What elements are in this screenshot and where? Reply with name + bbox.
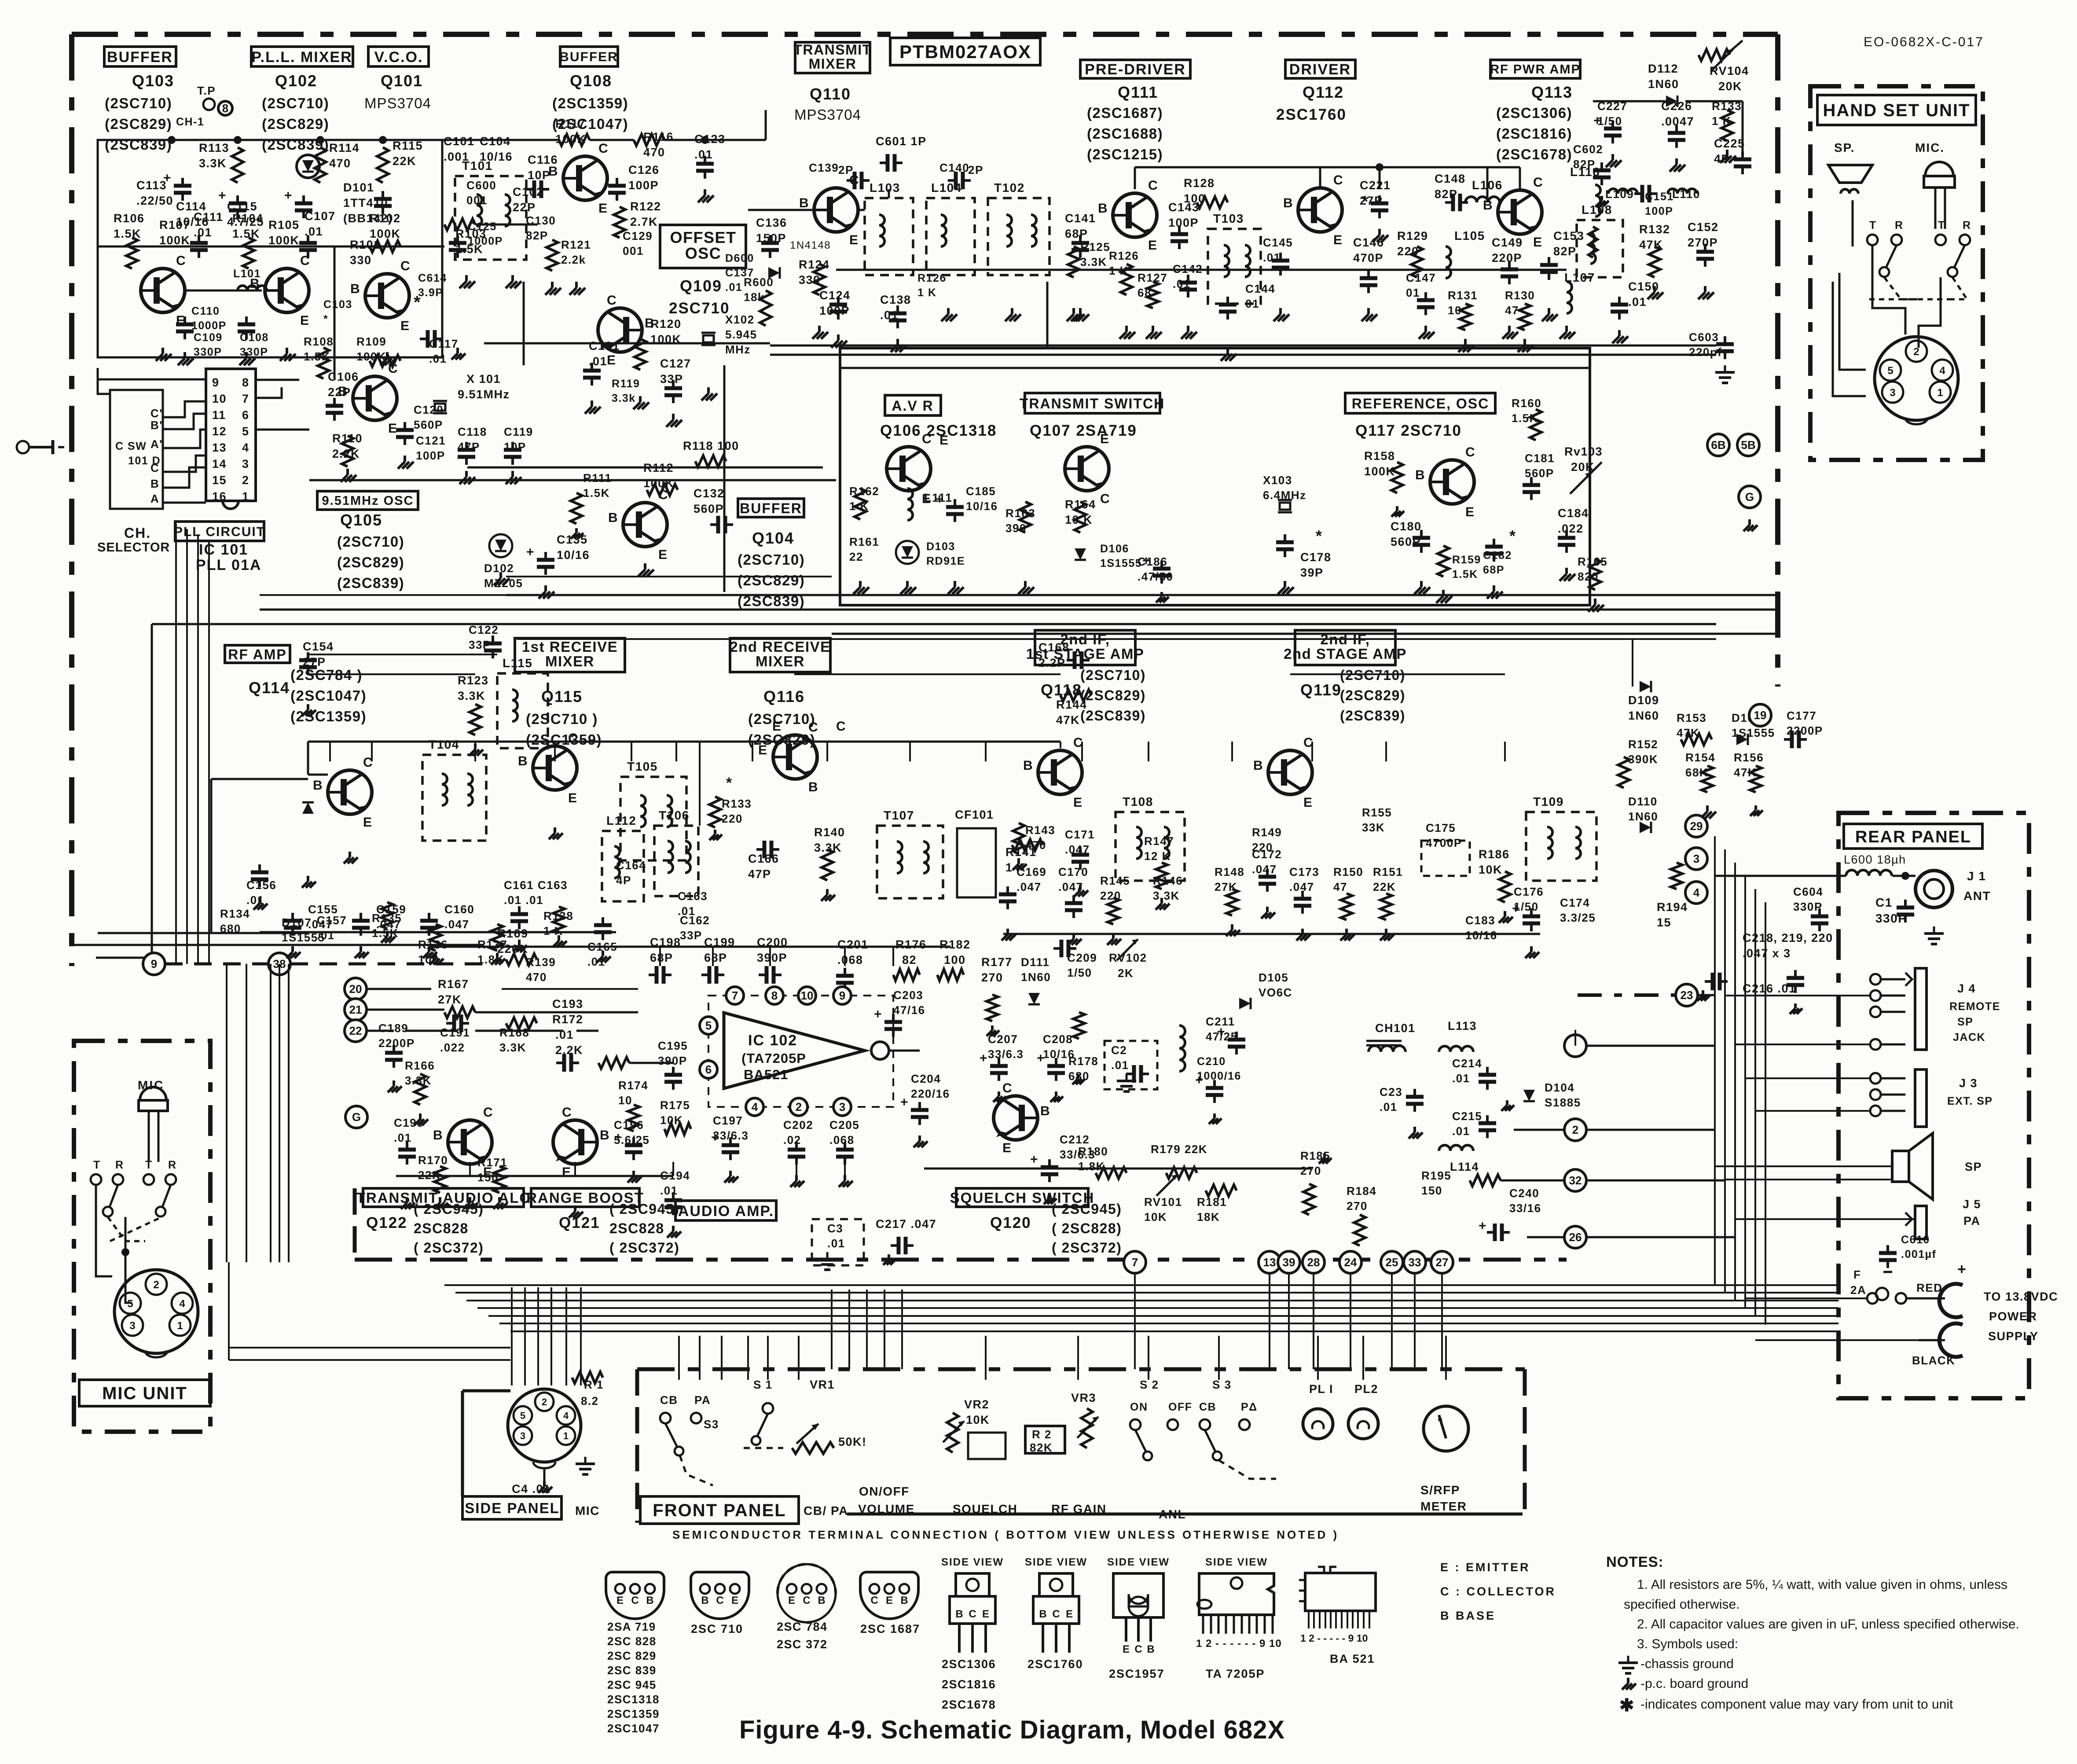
svg-text:D110: D110 bbox=[1628, 795, 1658, 808]
svg-text:10/16: 10/16 bbox=[557, 548, 590, 562]
svg-text:.068: .068 bbox=[829, 1133, 855, 1147]
svg-text:+: + bbox=[614, 1130, 623, 1145]
svg-text:4P: 4P bbox=[1714, 152, 1730, 165]
svg-text:68P: 68P bbox=[704, 951, 727, 964]
svg-text:E: E bbox=[562, 1165, 572, 1180]
svg-text:B: B bbox=[955, 1608, 963, 1620]
svg-text:C196: C196 bbox=[614, 1118, 644, 1132]
svg-text:BUFFER: BUFFER bbox=[107, 49, 173, 66]
svg-text:100: 100 bbox=[944, 953, 966, 967]
svg-text:R181: R181 bbox=[1197, 1195, 1227, 1209]
svg-text:CH101: CH101 bbox=[1375, 1022, 1416, 1035]
svg-text:B: B bbox=[548, 164, 558, 179]
svg-text:T: T bbox=[93, 1159, 101, 1171]
svg-text:C170: C170 bbox=[1058, 865, 1088, 878]
svg-text:+: + bbox=[936, 492, 944, 507]
svg-text:R129: R129 bbox=[1397, 229, 1428, 243]
svg-text:C: C bbox=[568, 731, 578, 746]
svg-text:E: E bbox=[1333, 233, 1343, 247]
svg-text:2: 2 bbox=[153, 1279, 159, 1291]
svg-text:R134: R134 bbox=[220, 907, 250, 920]
svg-text:*: * bbox=[1362, 192, 1369, 210]
svg-text:5: 5 bbox=[127, 1298, 133, 1310]
svg-text:2.2P: 2.2P bbox=[1038, 656, 1066, 669]
svg-text:C: C bbox=[598, 141, 609, 156]
svg-text:23: 23 bbox=[1681, 989, 1693, 1002]
svg-text:(2SC710): (2SC710) bbox=[337, 533, 404, 550]
svg-text:C: C bbox=[300, 254, 310, 268]
svg-text:(2SC710): (2SC710) bbox=[748, 711, 815, 727]
svg-text:.01: .01 bbox=[1628, 295, 1647, 309]
svg-text:C119: C119 bbox=[504, 425, 533, 438]
svg-text:+: + bbox=[900, 1095, 909, 1110]
svg-text:C139: C139 bbox=[809, 161, 839, 174]
svg-text:SP.: SP. bbox=[1834, 141, 1855, 154]
svg-text:1N60: 1N60 bbox=[1021, 970, 1051, 984]
svg-text:.01: .01 bbox=[1452, 1125, 1470, 1138]
svg-text:R148: R148 bbox=[1215, 865, 1244, 878]
svg-text:C195: C195 bbox=[658, 1039, 688, 1052]
svg-text:28: 28 bbox=[1307, 1256, 1320, 1269]
svg-text:2SA 719: 2SA 719 bbox=[607, 1620, 656, 1633]
svg-text:R108: R108 bbox=[304, 335, 334, 348]
svg-text:PL2: PL2 bbox=[1354, 1382, 1378, 1396]
svg-text:C602: C602 bbox=[1573, 143, 1603, 156]
svg-text:CB: CB bbox=[660, 1393, 678, 1407]
svg-text:S 2: S 2 bbox=[1140, 1378, 1159, 1391]
svg-text:C205: C205 bbox=[829, 1118, 859, 1132]
svg-text:SP: SP bbox=[1965, 1160, 1982, 1173]
svg-text:R101: R101 bbox=[350, 238, 381, 251]
svg-text:C126: C126 bbox=[628, 163, 660, 176]
svg-text:(2SC839): (2SC839) bbox=[337, 575, 404, 591]
svg-text:7: 7 bbox=[242, 392, 250, 405]
svg-text:R161: R161 bbox=[849, 535, 879, 548]
svg-text:11: 11 bbox=[212, 408, 226, 422]
svg-text:R120: R120 bbox=[650, 317, 682, 331]
svg-text:MPS3704: MPS3704 bbox=[364, 95, 431, 111]
svg-text:C217 .047: C217 .047 bbox=[876, 1217, 936, 1231]
svg-text:R106: R106 bbox=[114, 212, 145, 225]
svg-text:C127: C127 bbox=[660, 357, 691, 370]
svg-text:2: 2 bbox=[242, 474, 250, 487]
svg-text:*: * bbox=[323, 313, 328, 325]
svg-text:RF PWR AMP: RF PWR AMP bbox=[1490, 62, 1581, 77]
svg-text:2: 2 bbox=[796, 1100, 802, 1114]
svg-text:33K: 33K bbox=[1362, 821, 1385, 834]
svg-text:C113: C113 bbox=[136, 179, 167, 192]
svg-text:F: F bbox=[1853, 1268, 1861, 1281]
svg-text:( 2SC372): ( 2SC372) bbox=[609, 1240, 679, 1256]
svg-text:L115: L115 bbox=[503, 656, 532, 670]
svg-text:2SC828: 2SC828 bbox=[609, 1220, 664, 1236]
svg-text:22P: 22P bbox=[328, 386, 351, 399]
svg-text:270: 270 bbox=[1300, 1164, 1321, 1177]
svg-text:22: 22 bbox=[849, 550, 863, 563]
svg-text:C190: C190 bbox=[394, 1116, 424, 1129]
svg-text:X102: X102 bbox=[725, 313, 755, 326]
svg-text:12 K: 12 K bbox=[1144, 849, 1171, 863]
svg-text:100K: 100K bbox=[159, 234, 191, 247]
svg-text:B: B bbox=[1253, 758, 1263, 773]
svg-text:10/16: 10/16 bbox=[1465, 929, 1497, 942]
svg-text:Q103: Q103 bbox=[132, 72, 174, 90]
svg-text:B: B bbox=[350, 282, 360, 296]
svg-text:R177: R177 bbox=[981, 956, 1013, 969]
svg-text:47: 47 bbox=[1333, 880, 1347, 893]
svg-text:OSC: OSC bbox=[685, 244, 722, 262]
svg-text:R: R bbox=[168, 1159, 177, 1171]
svg-text:C: C bbox=[483, 1105, 493, 1120]
svg-text:TA 7205P: TA 7205P bbox=[1206, 1667, 1265, 1680]
svg-text:R164: R164 bbox=[1065, 498, 1096, 511]
svg-text:2.7K: 2.7K bbox=[630, 215, 658, 228]
svg-text:1S1555: 1S1555 bbox=[1100, 557, 1142, 570]
svg-text:Q106 2SC1318: Q106 2SC1318 bbox=[880, 422, 997, 439]
svg-text:*: * bbox=[1316, 527, 1323, 545]
svg-text:390P: 390P bbox=[757, 951, 787, 964]
svg-text:E: E bbox=[1123, 1643, 1130, 1655]
svg-text:Rv103: Rv103 bbox=[1564, 445, 1603, 458]
svg-text:Q121: Q121 bbox=[559, 1214, 600, 1231]
svg-text:( 2SC945): ( 2SC945) bbox=[1052, 1201, 1122, 1217]
svg-text:39: 39 bbox=[1283, 1256, 1295, 1269]
svg-text:C600: C600 bbox=[466, 179, 496, 192]
svg-text:1: 1 bbox=[242, 490, 250, 503]
svg-text:.01: .01 bbox=[429, 352, 447, 365]
svg-text:R195: R195 bbox=[1421, 1169, 1451, 1182]
svg-text:3: 3 bbox=[129, 1320, 135, 1332]
svg-text:.01: .01 bbox=[1111, 1058, 1129, 1072]
svg-text:-indicates component value may: -indicates component value may vary from… bbox=[1640, 1697, 1953, 1712]
svg-text:2K: 2K bbox=[1118, 967, 1134, 980]
svg-text:( 2SC372): ( 2SC372) bbox=[1052, 1240, 1122, 1256]
svg-text:E: E bbox=[849, 233, 859, 247]
svg-text:12: 12 bbox=[212, 425, 227, 438]
svg-text:R114: R114 bbox=[329, 141, 360, 154]
svg-text:T103: T103 bbox=[1213, 212, 1244, 225]
svg-text:470P: 470P bbox=[1353, 251, 1383, 265]
svg-text:IC 102: IC 102 bbox=[748, 1032, 797, 1049]
svg-text:R113: R113 bbox=[199, 141, 229, 154]
svg-text:9: 9 bbox=[212, 376, 220, 389]
svg-text:10: 10 bbox=[212, 392, 227, 405]
svg-text:R127: R127 bbox=[1138, 271, 1167, 284]
svg-text:Q111: Q111 bbox=[1118, 83, 1158, 101]
svg-text:MPS3704: MPS3704 bbox=[794, 107, 861, 123]
svg-text:E: E bbox=[400, 319, 410, 333]
svg-text:R115: R115 bbox=[393, 139, 423, 152]
svg-text:R160: R160 bbox=[1512, 397, 1541, 410]
svg-text:13: 13 bbox=[1263, 1256, 1276, 1269]
svg-text:T105: T105 bbox=[627, 760, 658, 773]
svg-text:Q110: Q110 bbox=[810, 85, 851, 103]
svg-text:2SC 828: 2SC 828 bbox=[607, 1635, 657, 1648]
svg-text:B: B bbox=[1098, 201, 1108, 216]
svg-text:9.51MHz OSC: 9.51MHz OSC bbox=[322, 494, 414, 508]
svg-text:CF101: CF101 bbox=[955, 808, 994, 821]
svg-text:Q114: Q114 bbox=[249, 679, 290, 697]
svg-text:47K: 47K bbox=[1056, 713, 1080, 727]
svg-text:2nd RECEIVE: 2nd RECEIVE bbox=[730, 639, 830, 655]
svg-text:E: E bbox=[616, 1595, 624, 1606]
svg-text:C103: C103 bbox=[323, 298, 352, 311]
svg-text:3.3/25: 3.3/25 bbox=[1560, 911, 1596, 924]
svg-text:SEMICONDUCTOR TERMINAL: SEMICONDUCTOR TERMINAL CONNECTION ( BOTT… bbox=[672, 1528, 1339, 1541]
svg-text:3.3k: 3.3k bbox=[612, 392, 636, 404]
svg-text:1. All resistors are 5%, ¼ wat: 1. All resistors are 5%, ¼ watt, with va… bbox=[1637, 1577, 2007, 1592]
svg-text:R132: R132 bbox=[1639, 223, 1670, 236]
svg-text:*: * bbox=[726, 775, 733, 791]
svg-text:B: B bbox=[433, 1128, 443, 1143]
svg-text:27K: 27K bbox=[438, 993, 462, 1006]
svg-text:330: 330 bbox=[350, 254, 372, 267]
svg-text:C124: C124 bbox=[819, 289, 851, 302]
svg-text:3.3K: 3.3K bbox=[1080, 255, 1107, 268]
svg-text:(2SC839): (2SC839) bbox=[1080, 708, 1146, 724]
svg-text:RV101: RV101 bbox=[1144, 1195, 1182, 1209]
svg-text:D106: D106 bbox=[1100, 543, 1129, 555]
svg-text:R121: R121 bbox=[561, 238, 591, 251]
svg-text:R143: R143 bbox=[1025, 823, 1055, 837]
svg-text:R186: R186 bbox=[1479, 848, 1510, 861]
svg-text:3: 3 bbox=[1890, 387, 1895, 399]
svg-text:24: 24 bbox=[1344, 1256, 1357, 1269]
svg-text:B: B bbox=[1415, 468, 1425, 482]
svg-text:+: + bbox=[218, 188, 227, 203]
svg-text:PLL 01A: PLL 01A bbox=[196, 557, 261, 573]
svg-text:R107: R107 bbox=[159, 218, 191, 232]
svg-text:C121: C121 bbox=[416, 434, 446, 447]
svg-text:.01: .01 bbox=[1380, 1100, 1398, 1114]
svg-text:BUFFER: BUFFER bbox=[740, 500, 802, 516]
svg-text:L114: L114 bbox=[1450, 1160, 1479, 1173]
svg-text:L105: L105 bbox=[1454, 229, 1485, 243]
svg-text:2SC710: 2SC710 bbox=[669, 300, 730, 317]
svg-text:R179 22K: R179 22K bbox=[1151, 1143, 1207, 1156]
svg-text:C155: C155 bbox=[308, 903, 338, 916]
svg-text:S1885: S1885 bbox=[1545, 1096, 1581, 1109]
svg-text:A.V R: A.V R bbox=[892, 398, 933, 414]
svg-text:L103: L103 bbox=[870, 181, 900, 195]
svg-text:2SC 372: 2SC 372 bbox=[777, 1638, 828, 1651]
svg-text:1 2 - - - - - - 9 10: 1 2 - - - - - - 9 10 bbox=[1196, 1638, 1282, 1650]
svg-text:C184: C184 bbox=[1558, 507, 1589, 520]
svg-text:2P: 2P bbox=[838, 163, 854, 176]
svg-text:S 3: S 3 bbox=[1212, 1378, 1232, 1391]
svg-text:PA: PA bbox=[694, 1393, 711, 1407]
svg-text:.01: .01 bbox=[660, 1184, 678, 1197]
svg-text:(2SC829): (2SC829) bbox=[337, 554, 404, 570]
svg-text:(2SC839): (2SC839) bbox=[1340, 708, 1405, 724]
svg-text:E: E bbox=[886, 1595, 893, 1606]
svg-text:C125: C125 bbox=[468, 220, 497, 233]
svg-text:B: B bbox=[799, 196, 809, 210]
svg-text:100P: 100P bbox=[628, 179, 659, 192]
svg-text:C2: C2 bbox=[1111, 1044, 1127, 1057]
svg-text:Q107 2SA719: Q107 2SA719 bbox=[1030, 422, 1137, 439]
svg-text:JACK: JACK bbox=[1953, 1031, 1985, 1044]
svg-text:100K: 100K bbox=[356, 350, 386, 363]
svg-text:C180: C180 bbox=[1391, 520, 1422, 533]
svg-text:5: 5 bbox=[242, 425, 250, 438]
svg-text:5B: 5B bbox=[1741, 438, 1755, 452]
svg-text:C161 C163: C161 C163 bbox=[504, 878, 568, 892]
svg-text:R105: R105 bbox=[268, 218, 300, 232]
svg-text:EO-0682X-C-017: EO-0682X-C-017 bbox=[1864, 35, 1984, 49]
svg-text:D101: D101 bbox=[343, 181, 374, 194]
svg-text:.01: .01 bbox=[394, 1131, 412, 1144]
svg-text:ANT: ANT bbox=[1963, 889, 1991, 903]
svg-text:J 5: J 5 bbox=[1963, 1198, 1981, 1211]
svg-text:(2SC1678): (2SC1678) bbox=[1496, 146, 1572, 162]
svg-text:1/50: 1/50 bbox=[1067, 966, 1092, 979]
svg-text:C175: C175 bbox=[1426, 821, 1456, 834]
svg-text:SIDE VIEW: SIDE VIEW bbox=[941, 1556, 1004, 1568]
svg-text:R117: R117 bbox=[555, 117, 586, 130]
svg-text:.047 x 3: .047 x 3 bbox=[1743, 947, 1791, 960]
svg-text:R152: R152 bbox=[1628, 738, 1658, 751]
svg-text:R118 100: R118 100 bbox=[683, 439, 739, 452]
svg-text:T: T bbox=[145, 1159, 153, 1171]
svg-text:Q120: Q120 bbox=[990, 1214, 1031, 1231]
svg-text:33/6.3: 33/6.3 bbox=[988, 1047, 1024, 1061]
svg-text:R147: R147 bbox=[1144, 834, 1174, 848]
svg-text:C189: C189 bbox=[378, 1022, 408, 1035]
svg-text:Q108: Q108 bbox=[570, 72, 612, 90]
svg-text:4P: 4P bbox=[616, 874, 631, 887]
svg-text:5: 5 bbox=[705, 1019, 712, 1032]
svg-text:(TA7205P: (TA7205P bbox=[741, 1051, 806, 1066]
svg-text:1 2 - - - - - 9 10: 1 2 - - - - - 9 10 bbox=[1300, 1632, 1368, 1644]
svg-text:C221: C221 bbox=[1360, 179, 1391, 192]
svg-text:+: + bbox=[711, 1130, 719, 1145]
svg-text:R176: R176 bbox=[895, 938, 927, 951]
svg-text:E: E bbox=[1100, 432, 1110, 446]
svg-text:D111: D111 bbox=[1021, 956, 1050, 969]
svg-text:.047: .047 bbox=[1016, 880, 1042, 893]
svg-text:2SC1816: 2SC1816 bbox=[942, 1678, 996, 1691]
svg-text:4: 4 bbox=[179, 1298, 185, 1310]
svg-text:2: 2 bbox=[1913, 346, 1919, 358]
svg-text:TRANSMIT: TRANSMIT bbox=[793, 42, 871, 58]
svg-text:1: 1 bbox=[1937, 387, 1943, 399]
svg-text:.047: .047 bbox=[376, 918, 401, 931]
svg-text:C: C bbox=[658, 488, 668, 502]
svg-text:(2SC1306): (2SC1306) bbox=[1496, 105, 1572, 121]
svg-text:2SC828: 2SC828 bbox=[414, 1220, 469, 1236]
svg-text:2SC1047: 2SC1047 bbox=[607, 1722, 660, 1735]
svg-text:R128: R128 bbox=[1184, 176, 1215, 190]
svg-text:B: B bbox=[518, 754, 528, 768]
svg-text:C146: C146 bbox=[1353, 236, 1384, 249]
svg-text:C208: C208 bbox=[1043, 1033, 1073, 1046]
svg-text:C: C bbox=[1052, 1608, 1060, 1620]
svg-text:(2SC829): (2SC829) bbox=[1340, 687, 1405, 703]
svg-text:68P: 68P bbox=[650, 951, 673, 964]
svg-text:C144: C144 bbox=[1245, 282, 1275, 295]
svg-text:T101: T101 bbox=[462, 159, 493, 173]
svg-text:SIDE VIEW: SIDE VIEW bbox=[1205, 1556, 1268, 1568]
svg-text:.01: .01 bbox=[725, 281, 742, 294]
svg-text:C109: C109 bbox=[194, 331, 223, 344]
svg-text:(2SC710): (2SC710) bbox=[738, 551, 805, 568]
svg-text:D104: D104 bbox=[1545, 1081, 1574, 1094]
svg-text:B: B bbox=[701, 1595, 708, 1606]
svg-text:R: R bbox=[115, 1159, 124, 1171]
svg-text:1N60: 1N60 bbox=[1628, 709, 1659, 722]
svg-text:C110: C110 bbox=[191, 305, 220, 317]
svg-text:B: B bbox=[1283, 196, 1293, 210]
svg-text:VR1: VR1 bbox=[810, 1378, 835, 1391]
svg-text:(2SC710): (2SC710) bbox=[262, 95, 329, 111]
svg-text:3.9P: 3.9P bbox=[418, 287, 443, 299]
svg-text:3.3K: 3.3K bbox=[499, 1041, 526, 1054]
svg-text:33/16: 33/16 bbox=[1509, 1202, 1541, 1215]
svg-text:Figure 4-9. Schematic Diagram,: Figure 4-9. Schematic Diagram, Model 682… bbox=[739, 1716, 1285, 1744]
svg-text:J 3: J 3 bbox=[1959, 1077, 1978, 1090]
svg-text:R166: R166 bbox=[405, 1059, 435, 1072]
svg-text:R130: R130 bbox=[1505, 289, 1535, 302]
svg-text:A: A bbox=[150, 492, 159, 505]
svg-text:B: B bbox=[1040, 1104, 1050, 1118]
svg-text:C601 1P: C601 1P bbox=[876, 135, 927, 148]
svg-text:C136: C136 bbox=[756, 216, 787, 229]
svg-text:18K: 18K bbox=[1197, 1210, 1220, 1224]
svg-text:SIDE VIEW: SIDE VIEW bbox=[1107, 1556, 1170, 1568]
svg-text:T102: T102 bbox=[994, 181, 1025, 195]
svg-text:R146: R146 bbox=[1153, 874, 1183, 887]
svg-text:R175: R175 bbox=[660, 1099, 690, 1112]
svg-text:33/6.3: 33/6.3 bbox=[1060, 1148, 1095, 1161]
svg-text:.068: .068 bbox=[837, 953, 863, 967]
svg-text:B: B bbox=[150, 477, 159, 490]
svg-text:32: 32 bbox=[1569, 1174, 1582, 1187]
svg-text:D105: D105 bbox=[1259, 971, 1288, 984]
svg-text:2SC1760: 2SC1760 bbox=[1276, 106, 1347, 123]
svg-text:1.5K: 1.5K bbox=[583, 486, 610, 500]
svg-text:C: C bbox=[1465, 445, 1475, 459]
svg-text:6: 6 bbox=[705, 1063, 712, 1076]
svg-text:270: 270 bbox=[1347, 1199, 1368, 1213]
svg-text:7: 7 bbox=[1132, 1256, 1138, 1269]
svg-text:C164: C164 bbox=[616, 859, 646, 872]
svg-text:C154: C154 bbox=[303, 640, 334, 653]
svg-text:C202: C202 bbox=[783, 1118, 813, 1132]
svg-text:20: 20 bbox=[349, 982, 362, 996]
svg-text:R111: R111 bbox=[583, 471, 612, 485]
svg-text:T107: T107 bbox=[884, 808, 914, 822]
svg-text:R194: R194 bbox=[1657, 900, 1688, 914]
svg-text:-p.c. board ground: -p.c. board ground bbox=[1640, 1676, 1748, 1691]
svg-text:CB/ PA: CB/ PA bbox=[804, 1504, 848, 1518]
svg-text:C106: C106 bbox=[328, 370, 359, 383]
svg-text:C: C bbox=[400, 259, 411, 273]
svg-text:.001µf: .001µf bbox=[1901, 1248, 1936, 1261]
svg-text:E: E bbox=[607, 353, 616, 367]
svg-text:C: C bbox=[969, 1608, 976, 1620]
svg-text:50K!: 50K! bbox=[838, 1435, 867, 1448]
svg-text:.022: .022 bbox=[440, 1041, 465, 1054]
svg-text:E: E bbox=[1002, 1141, 1012, 1155]
svg-text:R167: R167 bbox=[438, 978, 469, 991]
svg-text:+: + bbox=[1037, 1051, 1045, 1066]
svg-text:9.51MHz: 9.51MHz bbox=[458, 388, 510, 401]
svg-text:(2SC710 ): (2SC710 ) bbox=[526, 711, 598, 727]
svg-text:R168: R168 bbox=[499, 1026, 529, 1039]
svg-text:IC 101: IC 101 bbox=[199, 541, 248, 558]
svg-text:C160: C160 bbox=[444, 903, 474, 916]
